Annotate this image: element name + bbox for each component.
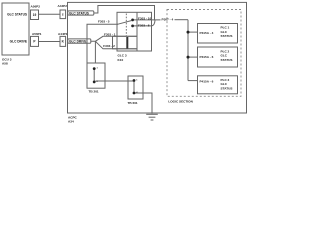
- svg-text:LOGIC SECTION: LOGIC SECTION: [168, 100, 193, 104]
- svg-text:P307 - 4: P307 - 4: [162, 18, 174, 22]
- svg-text:GLC DRIVE: GLC DRIVE: [10, 40, 27, 44]
- svg-text:F303 - 1: F303 - 1: [104, 33, 116, 37]
- svg-text:GLC STATUS: GLC STATUS: [7, 13, 27, 17]
- svg-text:TB 201: TB 201: [89, 90, 99, 94]
- svg-text:F303 - 8: F303 - 8: [138, 23, 150, 27]
- svg-text:19: 19: [33, 13, 37, 17]
- svg-text:F303 - 5: F303 - 5: [98, 20, 110, 24]
- svg-text:A34: A34: [68, 120, 74, 124]
- svg-text:GLC STATUS: GLC STATUS: [69, 11, 89, 15]
- svg-text:F303 - 10: F303 - 10: [138, 17, 152, 21]
- svg-text:A44P1: A44P1: [58, 32, 68, 36]
- svg-text:A56P1: A56P1: [32, 32, 42, 36]
- svg-text:K10: K10: [118, 58, 124, 62]
- svg-text:F303 - 2: F303 - 2: [103, 44, 115, 48]
- svg-text:A44P2: A44P2: [58, 4, 68, 8]
- svg-text:STATUS: STATUS: [221, 86, 233, 90]
- svg-text:P315A - 6: P315A - 6: [200, 55, 214, 59]
- svg-text:GLC DRIVE: GLC DRIVE: [69, 39, 86, 43]
- svg-text:A56P2: A56P2: [31, 5, 41, 9]
- svg-text:A58: A58: [2, 62, 8, 66]
- svg-text:P315A - 4: P315A - 4: [200, 31, 214, 35]
- svg-text:TB 601: TB 601: [128, 101, 138, 105]
- svg-text:P415A - 6: P415A - 6: [200, 80, 214, 84]
- svg-text:STATUS: STATUS: [221, 58, 233, 62]
- svg-text:c: c: [62, 13, 64, 17]
- svg-text:STATUS: STATUS: [221, 34, 233, 38]
